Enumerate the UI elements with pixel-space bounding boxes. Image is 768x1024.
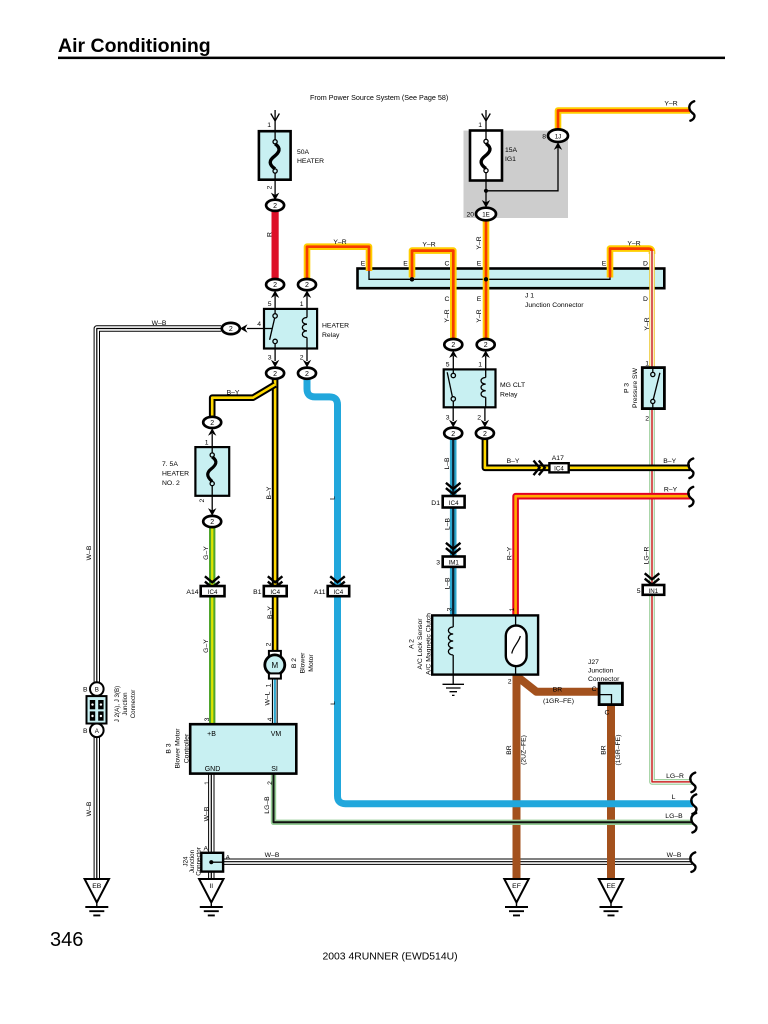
svg-text:Junction Connector: Junction Connector — [525, 302, 584, 309]
svg-text:LG–B: LG–B — [665, 813, 683, 820]
svg-text:LG–B: LG–B — [264, 796, 271, 814]
svg-text:B: B — [83, 728, 88, 735]
svg-text:5: 5 — [637, 588, 641, 595]
svg-text:From Power Source System (See: From Power Source System (See Page 58) — [310, 93, 448, 102]
svg-text:2: 2 — [484, 342, 488, 349]
svg-text:1: 1 — [266, 683, 273, 687]
svg-text:3: 3 — [446, 415, 450, 422]
svg-text:1: 1 — [509, 607, 516, 611]
svg-text:B 3: B 3 — [166, 743, 173, 753]
svg-text:W–B: W–B — [152, 320, 167, 327]
svg-text:1: 1 — [300, 301, 304, 308]
svg-text:B–Y: B–Y — [227, 390, 240, 397]
svg-text:5: 5 — [268, 301, 272, 308]
svg-text:2: 2 — [273, 282, 277, 289]
svg-text:2003 4RUNNER (EWD514U): 2003 4RUNNER (EWD514U) — [322, 952, 457, 963]
svg-text:1: 1 — [267, 122, 271, 129]
svg-text:(2UZ–FE): (2UZ–FE) — [521, 735, 528, 765]
svg-text:IN1: IN1 — [649, 588, 659, 595]
svg-text:Controller: Controller — [184, 733, 191, 763]
svg-text:LG–R: LG–R — [666, 773, 684, 780]
svg-text:3: 3 — [268, 355, 272, 362]
svg-text:2: 2 — [645, 416, 649, 423]
svg-text:W–B: W–B — [667, 852, 682, 859]
svg-text:2: 2 — [273, 203, 277, 210]
svg-text:2: 2 — [210, 420, 214, 427]
svg-text:2: 2 — [300, 355, 304, 362]
svg-text:J27: J27 — [588, 659, 599, 666]
svg-text:+B: +B — [207, 731, 216, 738]
svg-text:HEATER: HEATER — [162, 471, 189, 478]
svg-text:B–Y: B–Y — [507, 458, 520, 465]
svg-text:E: E — [477, 261, 482, 268]
svg-text:7. 5A: 7. 5A — [162, 461, 178, 468]
svg-text:5: 5 — [446, 362, 450, 369]
svg-text:4: 4 — [267, 717, 274, 721]
svg-text:1J: 1J — [555, 133, 562, 140]
svg-text:R–Y: R–Y — [507, 546, 514, 560]
svg-text:1E: 1E — [482, 212, 490, 219]
svg-text:IM1: IM1 — [449, 560, 460, 567]
svg-text:2: 2 — [267, 185, 274, 189]
svg-text:BR: BR — [601, 745, 608, 755]
svg-text:2: 2 — [273, 371, 277, 378]
svg-text:IC4: IC4 — [334, 589, 344, 596]
svg-text:(1GR–FE): (1GR–FE) — [615, 735, 622, 766]
svg-text:NO. 2: NO. 2 — [162, 480, 180, 487]
svg-text:A14: A14 — [186, 589, 198, 596]
svg-text:Motor: Motor — [308, 654, 315, 672]
svg-text:Y–R: Y–R — [476, 236, 483, 249]
svg-text:EB: EB — [92, 883, 102, 890]
svg-text:L: L — [330, 701, 337, 705]
svg-text:3: 3 — [436, 560, 440, 567]
svg-text:L–B: L–B — [444, 577, 451, 590]
svg-text:Pressure SW: Pressure SW — [632, 367, 639, 408]
svg-text:W–L: W–L — [265, 691, 272, 705]
svg-text:M: M — [271, 661, 278, 670]
svg-text:Y–R: Y–R — [422, 242, 435, 249]
svg-text:1: 1 — [205, 440, 209, 447]
svg-text:E: E — [361, 261, 366, 268]
svg-text:LG–R: LG–R — [644, 547, 651, 565]
svg-text:15A: 15A — [505, 147, 518, 154]
svg-text:II: II — [209, 883, 213, 890]
svg-text:SI: SI — [271, 766, 278, 773]
svg-text:2: 2 — [451, 431, 455, 438]
svg-text:IC4: IC4 — [449, 500, 459, 507]
svg-text:C: C — [445, 261, 450, 268]
svg-text:W–B: W–B — [265, 852, 280, 859]
svg-text:E: E — [602, 261, 607, 268]
svg-text:2: 2 — [266, 642, 273, 646]
svg-text:Junction: Junction — [122, 692, 129, 716]
svg-text:Blower Motor: Blower Motor — [175, 728, 182, 769]
svg-text:1: 1 — [478, 362, 482, 369]
svg-text:G–Y: G–Y — [203, 546, 210, 560]
svg-text:B–Y: B–Y — [663, 458, 676, 465]
svg-text:D: D — [643, 261, 648, 268]
svg-text:Connector: Connector — [130, 690, 137, 719]
svg-text:J 2(A), J 3(B): J 2(A), J 3(B) — [114, 686, 121, 722]
svg-text:B 2: B 2 — [291, 658, 298, 668]
svg-text:HEATER: HEATER — [322, 323, 349, 330]
svg-text:Connector: Connector — [196, 847, 203, 876]
svg-text:3: 3 — [447, 607, 454, 611]
svg-text:L–B: L–B — [444, 457, 451, 470]
svg-text:2: 2 — [229, 326, 233, 333]
svg-text:C: C — [445, 296, 450, 303]
svg-text:B–Y: B–Y — [266, 486, 273, 499]
svg-text:Y–R: Y–R — [664, 101, 677, 108]
svg-text:B–Y: B–Y — [267, 606, 274, 619]
svg-text:IC4: IC4 — [208, 589, 218, 596]
svg-text:BR: BR — [506, 745, 513, 755]
svg-text:D: D — [643, 296, 648, 303]
svg-text:B: B — [83, 687, 88, 694]
svg-text:2: 2 — [477, 415, 481, 422]
svg-text:R–Y: R–Y — [664, 487, 678, 494]
svg-text:R: R — [267, 232, 274, 237]
svg-text:Y–R: Y–R — [627, 241, 640, 248]
svg-text:3: 3 — [204, 717, 211, 721]
svg-text:Y–R: Y–R — [444, 309, 451, 322]
svg-text:2: 2 — [483, 431, 487, 438]
svg-text:E: E — [477, 296, 482, 303]
svg-text:W–B: W–B — [86, 801, 93, 816]
svg-text:1: 1 — [478, 122, 482, 129]
svg-text:2: 2 — [451, 342, 455, 349]
svg-text:8: 8 — [542, 133, 546, 140]
svg-text:P 3: P 3 — [624, 383, 631, 393]
svg-text:2: 2 — [267, 781, 274, 785]
svg-text:A: A — [203, 846, 208, 853]
svg-text:D1: D1 — [431, 500, 440, 507]
svg-text:C: C — [592, 686, 597, 693]
svg-text:A17: A17 — [552, 455, 564, 462]
svg-text:A: A — [226, 855, 231, 862]
svg-text:Y–R: Y–R — [476, 309, 483, 322]
svg-text:Y–R: Y–R — [644, 317, 651, 330]
svg-text:EF: EF — [512, 883, 521, 890]
svg-text:Junction: Junction — [588, 668, 614, 675]
svg-text:A 2: A 2 — [409, 639, 416, 649]
svg-text:IC4: IC4 — [270, 589, 280, 596]
svg-text:346: 346 — [50, 929, 83, 951]
svg-text:B: B — [95, 687, 99, 694]
svg-text:B1: B1 — [253, 589, 262, 596]
svg-text:50A: 50A — [297, 149, 310, 156]
svg-text:L: L — [672, 794, 676, 801]
svg-text:BR: BR — [553, 686, 563, 693]
svg-text:GND: GND — [205, 766, 221, 773]
svg-text:2: 2 — [210, 519, 214, 526]
svg-text:W–B: W–B — [204, 806, 211, 821]
svg-text:Y–R: Y–R — [333, 239, 346, 246]
svg-text:MG CLT: MG CLT — [500, 382, 525, 389]
svg-text:A/C Lock Sensor: A/C Lock Sensor — [417, 618, 424, 670]
svg-text:Relay: Relay — [322, 332, 340, 339]
svg-text:A/C Magnetic Clutch: A/C Magnetic Clutch — [426, 613, 433, 675]
svg-text:Relay: Relay — [500, 392, 518, 399]
svg-text:(1GR–FE): (1GR–FE) — [543, 698, 574, 705]
svg-text:2: 2 — [305, 282, 309, 289]
svg-text:IG1: IG1 — [505, 156, 516, 163]
svg-text:Blower: Blower — [300, 652, 307, 674]
svg-text:HEATER: HEATER — [297, 158, 324, 165]
svg-text:A11: A11 — [314, 589, 326, 596]
svg-text:VM: VM — [271, 731, 282, 738]
svg-text:E: E — [403, 261, 408, 268]
svg-text:W–B: W–B — [86, 545, 93, 560]
svg-text:IC4: IC4 — [554, 466, 564, 473]
svg-text:C: C — [605, 710, 610, 717]
svg-text:2: 2 — [199, 499, 206, 503]
svg-text:L: L — [330, 496, 337, 500]
svg-text:L–B: L–B — [444, 517, 451, 530]
svg-text:2: 2 — [305, 371, 309, 378]
svg-text:4: 4 — [257, 321, 261, 328]
svg-text:2: 2 — [508, 679, 512, 686]
svg-text:1: 1 — [645, 360, 649, 367]
svg-text:20: 20 — [466, 212, 474, 219]
svg-text:G–Y: G–Y — [203, 639, 210, 653]
svg-text:EE: EE — [606, 883, 616, 890]
svg-text:1: 1 — [204, 781, 211, 785]
svg-text:J 1: J 1 — [525, 293, 534, 300]
svg-text:Air Conditioning: Air Conditioning — [58, 35, 211, 57]
